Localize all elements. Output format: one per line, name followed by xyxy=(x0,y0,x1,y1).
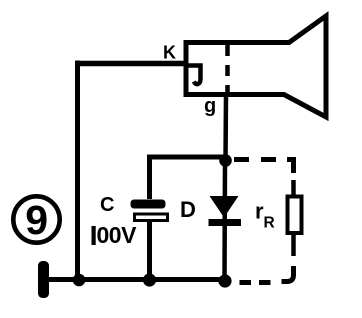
wire capacitor to bottom rail xyxy=(147,221,152,279)
horn / CRT body U1 xyxy=(186,16,326,117)
svg-text:00V: 00V xyxy=(97,222,138,248)
dashed wire bottom xyxy=(233,280,271,285)
grid dashed line g xyxy=(225,45,230,97)
node junction bottom left xyxy=(73,274,86,287)
svg-text:9: 9 xyxy=(25,197,48,243)
node junction top xyxy=(219,154,232,167)
dashed corner bottom right xyxy=(282,266,294,282)
wire bottom rail xyxy=(46,277,229,282)
wire from K to left vertical xyxy=(75,61,187,67)
ground electrode bar xyxy=(38,261,49,298)
capacitor C1 bottom plate xyxy=(135,214,168,221)
diode D1 vertical wire xyxy=(222,160,227,280)
dashed corner top right xyxy=(287,160,294,174)
terminal circle 9 xyxy=(13,196,59,242)
node junction bottom diode xyxy=(218,274,231,287)
resistor lead bottom xyxy=(291,233,296,256)
wire capacitor branch top xyxy=(150,157,225,199)
cathode hook K inside horn xyxy=(186,66,201,85)
resistor R1 body xyxy=(288,197,302,234)
dashed wire top to resistor box xyxy=(234,157,277,162)
svg-text:C: C xyxy=(100,194,114,216)
resistor lead top xyxy=(291,180,296,197)
svg-text:g: g xyxy=(204,95,216,117)
svg-text:K: K xyxy=(163,43,176,63)
wire grid line down to node xyxy=(223,95,228,160)
node junction bottom capacitor xyxy=(143,273,156,286)
wire left vertical xyxy=(75,61,80,280)
capacitor C1 top plate xyxy=(131,200,166,209)
diode D1 triangle xyxy=(210,196,239,218)
diode D1 cathode bar xyxy=(209,219,242,226)
svg-text:D: D xyxy=(180,197,196,222)
value 100V xyxy=(92,226,96,245)
svg-text:R: R xyxy=(264,215,275,232)
